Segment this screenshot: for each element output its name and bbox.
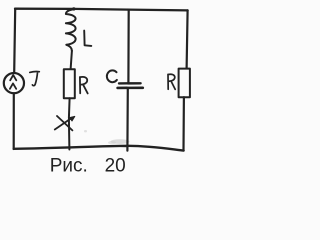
switch [55,116,75,130]
wire right lower [182,97,185,150]
capacitor C [107,70,143,88]
current source J [4,72,40,94]
caption [50,156,126,177]
inductor L [66,9,91,51]
wire R1 to switch [68,98,71,118]
resistor R2 [168,69,190,98]
svg-text:Рис.: Рис. [50,156,88,177]
wire capacitor branch upper [127,10,130,83]
wire right upper [187,10,188,69]
wire bottom [14,146,184,151]
wire switch to bottom [68,119,71,150]
wire capacitor branch lower [126,89,129,151]
wire left lower [13,93,15,149]
wire left upper [14,9,15,72]
resistor R1 [64,69,88,98]
svg-text:20: 20 [105,156,126,177]
wire top [15,9,188,11]
node top of middle branch [72,7,75,10]
scan smudges (decorative) [111,139,130,144]
wire coil to R1 [71,51,72,70]
